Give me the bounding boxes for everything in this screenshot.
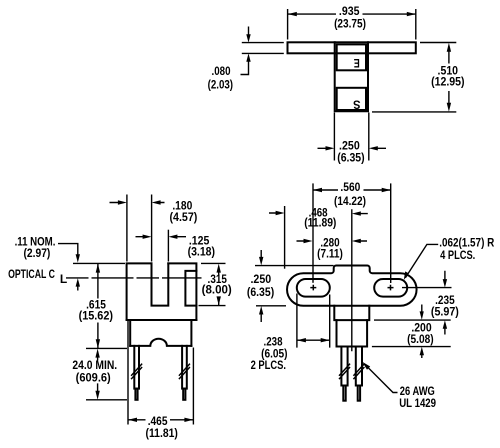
side view: sensor window rect at right wall bbox=[185, 271, 196, 306]
arrowhead .280 left bbox=[304, 239, 313, 243]
svg-text:.250: .250 bbox=[250, 274, 271, 287]
arrowhead .180 right bbox=[152, 200, 161, 204]
dim .125: extension line bbox=[167, 230, 169, 262]
svg-text:.062(1.57) R: .062(1.57) R bbox=[439, 236, 494, 249]
svg-text:2 PLCS.: 2 PLCS. bbox=[251, 359, 286, 372]
arrowhead .200 bottom bbox=[420, 347, 424, 356]
arrowhead .510 bottom bbox=[447, 103, 451, 112]
dim .080: extension lines bbox=[242, 43, 284, 54]
svg-text:(6.35): (6.35) bbox=[247, 287, 275, 300]
arrowhead 24.0 top bbox=[95, 349, 99, 358]
arrowhead .080 top bbox=[246, 34, 250, 42]
svg-text:.560: .560 bbox=[340, 182, 360, 195]
side view: step shoulder line bbox=[127, 319, 197, 321]
front view: left wire thin tip bbox=[343, 386, 345, 401]
dim .250 front: arrow shafts bbox=[260, 250, 262, 322]
dim .468: arrow shafts bbox=[269, 212, 368, 215]
dim .468: extension line bbox=[284, 206, 286, 269]
front view: right wire thin tip bbox=[358, 386, 360, 401]
side view: right lead bbox=[182, 346, 187, 389]
svg-text:(2.97): (2.97) bbox=[23, 247, 50, 260]
dim .180: extension lines bbox=[127, 195, 152, 262]
dim .615: dimension line bbox=[97, 264, 99, 349]
svg-text:(5.97): (5.97) bbox=[431, 306, 459, 319]
front view: left hole crosshair bbox=[310, 285, 316, 291]
svg-text:(3.18): (3.18) bbox=[188, 246, 216, 259]
svg-text:.238: .238 bbox=[264, 336, 283, 349]
arrowhead .560 left bbox=[313, 188, 322, 192]
front view: stem upper tier bbox=[334, 306, 369, 320]
front view: left hole center extension line bbox=[312, 183, 314, 282]
side view: right lead break mark bbox=[179, 364, 189, 378]
dim .200: arrow shafts bbox=[421, 305, 423, 359]
arrowhead .315 top bbox=[217, 264, 221, 273]
arrowhead .238 left bbox=[297, 338, 306, 342]
front view: right hole center extension line bbox=[390, 183, 392, 283]
side view: bottom edge with center notch bbox=[130, 339, 191, 346]
arrowhead .615 top bbox=[96, 264, 100, 273]
arrowhead .125 right bbox=[168, 235, 177, 239]
svg-text:S: S bbox=[353, 97, 361, 109]
front view: vertical centerline bbox=[351, 209, 353, 351]
dim .280: arrow shafts bbox=[297, 240, 368, 242]
svg-text:(14.22): (14.22) bbox=[334, 195, 366, 208]
arrowhead .560 right bbox=[382, 188, 391, 192]
arrowhead .080 bottom bbox=[246, 53, 250, 61]
svg-text:(2.03): (2.03) bbox=[208, 79, 234, 92]
dim .250 top view: extension lines bbox=[334, 113, 368, 161]
front view: right wire lead bbox=[356, 347, 362, 386]
svg-text:.080: .080 bbox=[212, 65, 231, 78]
arrowhead .615 bottom bbox=[96, 339, 100, 348]
arrowhead .11 NOM down bbox=[76, 254, 80, 262]
arrowhead .468 right bbox=[352, 211, 361, 215]
svg-text:4 PLCS.: 4 PLCS. bbox=[440, 249, 475, 262]
dim .315: extension lines bbox=[199, 263, 226, 305]
front view: left wire lead bbox=[341, 347, 347, 386]
dim .080: arrow shafts and leader tail bbox=[241, 27, 249, 75]
svg-text:E: E bbox=[354, 56, 360, 70]
arrowhead .125 left bbox=[143, 235, 152, 239]
arrowhead .062 R leader bbox=[404, 271, 409, 280]
dim .465: dimension line segments bbox=[128, 419, 193, 421]
arrowhead .235 top bbox=[443, 279, 447, 288]
svg-text:(11.81): (11.81) bbox=[146, 427, 179, 440]
dim 24.0 MIN: extension lines bbox=[86, 348, 127, 399]
dim .510: arrow shafts bbox=[448, 52, 450, 104]
svg-text:(4.57): (4.57) bbox=[169, 212, 197, 225]
top view: center stem outline bbox=[335, 42, 368, 111]
arrowhead .315 bottom bbox=[217, 296, 221, 305]
side view: right lead thin tip bbox=[183, 389, 185, 400]
dim .560: dimension line segments bbox=[313, 189, 391, 191]
arrowhead 24.0 bottom bbox=[95, 391, 99, 400]
svg-text:(8.00): (8.00) bbox=[202, 283, 232, 296]
arrowhead .280 right bbox=[352, 239, 361, 243]
front view: right hole crosshair horizontal arm and .235 extension line bbox=[388, 285, 394, 291]
dim .465: extension lines bbox=[128, 321, 193, 425]
front view: flange outline with top tab bbox=[287, 266, 417, 306]
arrowhead .11 NOM up bbox=[76, 278, 80, 286]
dim .238: extension lines bbox=[297, 294, 330, 348]
side view: left lead break mark bbox=[132, 364, 142, 378]
svg-text:L: L bbox=[60, 272, 67, 286]
dim .510: extension lines bbox=[372, 43, 456, 112]
side view: optical centerline bbox=[66, 277, 202, 279]
arrowhead .200 top bbox=[420, 311, 424, 320]
side view: upper body outline with open slot bbox=[127, 263, 197, 320]
svg-text:(15.62): (15.62) bbox=[79, 310, 114, 323]
leader 26 AWG: polyline bbox=[366, 366, 398, 393]
dim .238: dimension line bbox=[297, 339, 330, 341]
side view: lower body outline bbox=[130, 320, 191, 346]
leader .062 R: polyline bbox=[405, 244, 438, 278]
side view: left lead thin tip bbox=[135, 389, 137, 400]
dim .125: arrow shafts bbox=[136, 236, 187, 238]
svg-text:(609.6): (609.6) bbox=[76, 372, 111, 384]
svg-text:OPTICAL C: OPTICAL C bbox=[8, 269, 55, 282]
dim .180: arrow shafts bbox=[110, 202, 165, 204]
dim .235: arrow shafts bbox=[444, 271, 446, 335]
dim .935: dimension line segments bbox=[288, 13, 416, 15]
arrowhead 26 AWG leader bbox=[362, 362, 370, 370]
arrowhead .238 right bbox=[321, 338, 330, 342]
arrowhead .250 front top bbox=[259, 257, 263, 266]
dim .250 front: extension lines bbox=[255, 266, 334, 306]
top view: header bar outline bbox=[288, 42, 416, 53]
arrowhead .465 left bbox=[128, 418, 137, 422]
dim 24.0 MIN: arrow shafts bbox=[97, 357, 99, 392]
side view: left lead bbox=[134, 346, 139, 389]
top view: emitter window rect E bbox=[337, 44, 366, 70]
arrowhead .250 front bottom bbox=[259, 306, 263, 315]
top view: sensor window rect S bbox=[337, 88, 366, 110]
front view: right oval mounting hole bbox=[374, 279, 407, 297]
svg-text:(7.11): (7.11) bbox=[317, 248, 343, 261]
svg-text:UL 1429: UL 1429 bbox=[399, 397, 436, 410]
side view: top edge extension line bbox=[73, 262, 125, 264]
arrowhead .180 left bbox=[118, 200, 127, 204]
svg-text:(11.89): (11.89) bbox=[304, 217, 336, 230]
arrowhead .510 top bbox=[447, 43, 451, 52]
front view: left wire break mark bbox=[340, 364, 350, 378]
dim .11 NOM: leader elbow and arrow shafts bbox=[58, 244, 78, 291]
arrowhead .465 right bbox=[184, 418, 193, 422]
svg-text:24.0 MIN.: 24.0 MIN. bbox=[72, 359, 117, 372]
arrowhead .935 left bbox=[288, 12, 297, 16]
svg-text:(23.75): (23.75) bbox=[334, 17, 366, 30]
svg-text:(6.35): (6.35) bbox=[337, 152, 365, 165]
svg-text:.935: .935 bbox=[339, 6, 360, 19]
arrowhead .468 left bbox=[276, 211, 285, 215]
svg-text:(12.95): (12.95) bbox=[431, 76, 465, 89]
front view: stem lower tier bbox=[337, 320, 368, 346]
svg-text:(5.08): (5.08) bbox=[407, 333, 434, 346]
dim .315: arrow shafts bbox=[218, 272, 220, 305]
dim .250 top view: arrow shafts bbox=[318, 147, 387, 149]
arrowhead .235 bottom bbox=[443, 320, 447, 329]
arrowhead .935 right bbox=[407, 12, 416, 16]
side view: slot walls and slot bottom bbox=[152, 263, 169, 305]
arrowhead .250 top-view right bbox=[369, 146, 378, 150]
front view: left oval mounting hole bbox=[297, 279, 330, 297]
arrowhead .250 top-view left bbox=[326, 146, 335, 150]
front view: right wire break mark bbox=[354, 364, 364, 378]
dim .935: extension lines bbox=[288, 9, 416, 40]
dim .235 / .200: right extension lines bbox=[372, 320, 451, 347]
